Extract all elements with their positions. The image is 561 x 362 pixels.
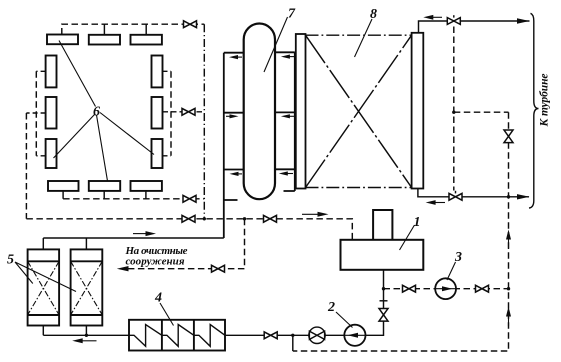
svg-text:8: 8 [370, 7, 377, 22]
filter top line to condenser riser [43, 237, 224, 239]
section rect bottom-H [89, 181, 120, 191]
bottom dashed line 2 (to tank) [26, 219, 352, 240]
bypass horizontal [454, 111, 509, 113]
label leader 8 [355, 19, 373, 57]
valve on top header [184, 21, 197, 28]
section rect left-B [46, 97, 57, 129]
valve right of pump3 [476, 285, 489, 292]
cooler dividers [162, 320, 194, 351]
section rect right-E [152, 97, 163, 129]
section rect right-F [152, 139, 163, 168]
svg-text:4: 4 [154, 291, 162, 306]
pipe cooler to pump2 [225, 334, 344, 336]
svg-text:2: 2 [327, 300, 335, 315]
filter vessel 5a [28, 249, 59, 325]
drain line to treatment [128, 219, 245, 269]
stub F [163, 155, 172, 157]
label leaders 6 [54, 41, 155, 182]
valve on right riser [504, 130, 513, 143]
cooling tower 8 right strip [412, 33, 424, 189]
curly brace to turbine [529, 13, 539, 208]
valve with stem on top pipe [447, 18, 460, 25]
flow arrow left below [426, 200, 445, 205]
label leader 7 [264, 17, 288, 72]
pump3 suction line [384, 288, 509, 290]
section rect top-1 [47, 35, 78, 45]
right dashed riser [293, 112, 509, 351]
stem bottom-I [145, 191, 147, 199]
label leader 3 [447, 262, 456, 280]
valve on tank drop [379, 309, 388, 322]
cooling section group 6: top dashed header [62, 24, 205, 34]
valve on line 2 left [182, 215, 195, 222]
label leaders 5 [15, 262, 76, 292]
label leader 4 [160, 303, 174, 326]
flow arrow on filter top line [133, 231, 156, 236]
pump 3 [435, 278, 456, 299]
right header column of 7 [275, 52, 295, 191]
junction dot tank drop / pump3 line [382, 287, 385, 290]
flow arrow left above [423, 15, 442, 20]
junction dot line2/riser [203, 217, 206, 220]
svg-text:3: 3 [454, 250, 462, 265]
flow arrow on line 2 [302, 212, 329, 217]
valve on pipe E [182, 108, 195, 115]
section rect bottom-G [48, 181, 79, 191]
treatment arrowhead [117, 266, 129, 271]
filter top stubs [43, 238, 86, 249]
cooler zigzag [129, 325, 225, 347]
stem bottom-H [103, 191, 105, 199]
cooling tower 8 left strip [296, 34, 306, 189]
tower 8 X diagonals [306, 35, 412, 187]
stem top-3 [145, 24, 147, 35]
tower 8 top and bottom edges [306, 35, 412, 187]
arrow into brace top [517, 18, 530, 23]
bottom dashed header 1 [63, 198, 204, 200]
stub C [36, 155, 45, 157]
valve right of cooler [264, 332, 277, 339]
left header column of 7 [224, 53, 244, 200]
deaerator 7 capsule [244, 23, 275, 199]
svg-text:7: 7 [288, 7, 296, 22]
arrow into brace bottom [517, 194, 530, 199]
left column edge / riser from filters [223, 53, 225, 238]
arrows in left column [229, 55, 242, 59]
svg-text:сооружения: сооружения [126, 256, 185, 268]
filter bottom line to cooler [43, 334, 129, 336]
bypass dashed drop from top valve [453, 27, 455, 191]
pump 2 [344, 325, 365, 346]
section rect left-A [46, 56, 57, 88]
valve on treatment line [212, 265, 225, 272]
junction dot filter bottom [85, 334, 88, 337]
section rect top-3 [131, 35, 162, 45]
label leader 2 [336, 312, 353, 328]
pipe pump2 to tank drop [366, 270, 384, 336]
valve with stem on bottom pipe [449, 193, 462, 200]
arrows in right column [281, 55, 294, 59]
tank 1 body [341, 240, 424, 270]
cooler 4 box [129, 320, 225, 351]
flange tick on tank drop [380, 300, 388, 302]
filter vessel 5b [71, 249, 103, 325]
section rect right-D [152, 56, 163, 88]
up arrows on right riser [506, 230, 511, 250]
filter bottom stubs [43, 326, 86, 336]
junction dot + drop to bottom dashed [291, 334, 294, 337]
top right pipe to turbine [419, 21, 530, 33]
outer left dashed riser [25, 113, 27, 219]
control valve circle [309, 327, 325, 343]
right column edge [294, 52, 296, 191]
svg-text:5: 5 [7, 253, 14, 268]
flow arrow under bottom line [72, 338, 96, 343]
inner right dashed riser [170, 71, 172, 156]
section rect left-C [46, 139, 57, 168]
svg-text:1: 1 [414, 215, 421, 230]
junction dots right riser [507, 195, 510, 198]
inner left dashed riser [35, 71, 37, 156]
junction dot bypass [452, 111, 455, 114]
bottom right pipe to turbine [418, 189, 529, 197]
junction dot line2/drain [243, 217, 246, 220]
stem top-2 [103, 24, 105, 35]
svg-text:6: 6 [93, 105, 100, 120]
pipe E to main riser [163, 111, 205, 113]
stub B [26, 112, 45, 114]
section rect top-2 [89, 35, 120, 45]
label leader 1 [400, 225, 415, 250]
stem bottom-G [62, 191, 64, 199]
main dash-dot riser [203, 24, 205, 219]
valve on line 2 right [264, 215, 277, 222]
tank 1 neck [373, 210, 392, 240]
valve on bottom header 1 [183, 195, 196, 202]
svg-text:К турбине: К турбине [539, 74, 551, 128]
stub D [163, 70, 172, 72]
section rect bottom-I [131, 181, 162, 191]
valve left of pump3 [403, 285, 416, 292]
stub A [36, 70, 45, 72]
